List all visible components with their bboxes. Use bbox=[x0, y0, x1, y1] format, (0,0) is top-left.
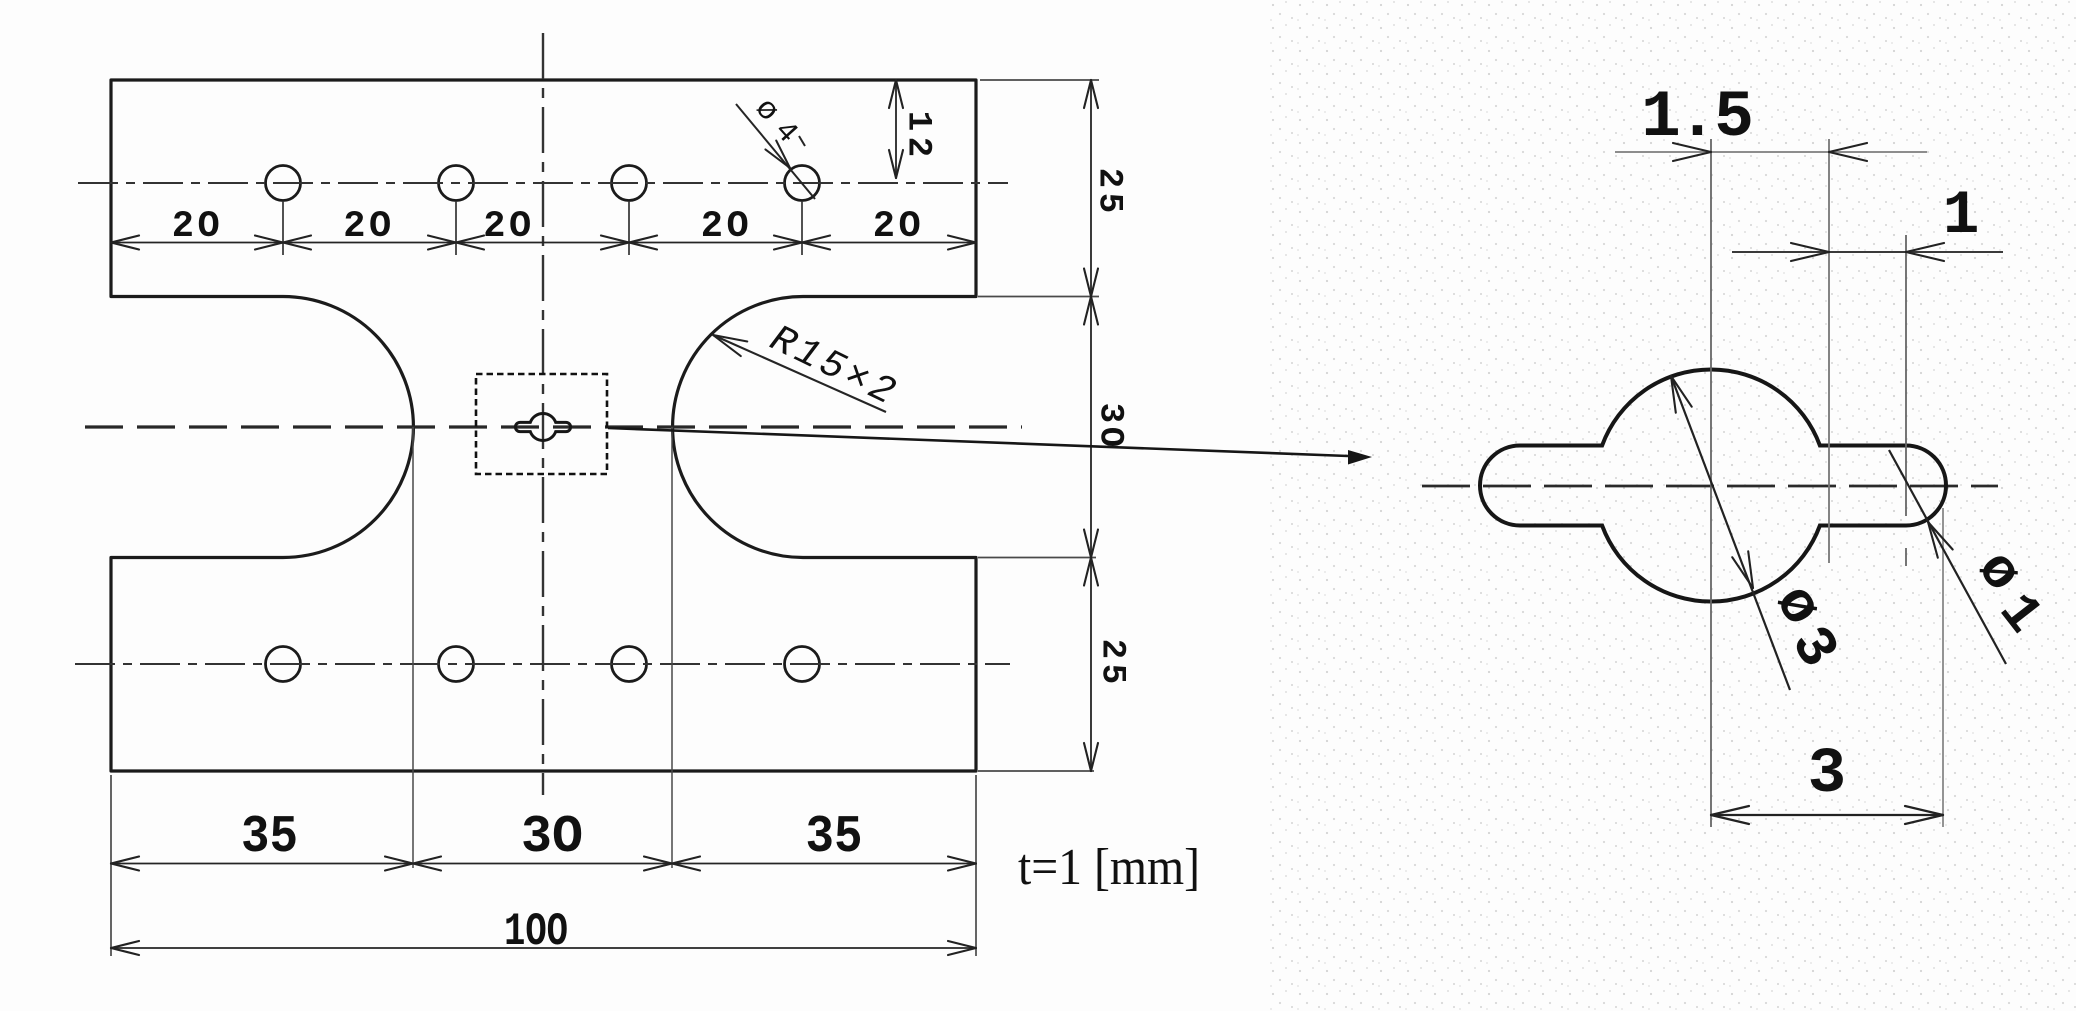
svg-text:2O: 2O bbox=[172, 206, 223, 248]
svg-text:1.5: 1.5 bbox=[1641, 80, 1751, 155]
svg-text:5: 5 bbox=[1089, 193, 1127, 213]
svg-text:2: 2 bbox=[1089, 168, 1127, 188]
svg-text:2: 2 bbox=[1092, 639, 1130, 659]
svg-text:2: 2 bbox=[898, 137, 936, 157]
svg-text:2O: 2O bbox=[483, 206, 534, 248]
svg-text:2O: 2O bbox=[343, 206, 394, 248]
svg-text:35: 35 bbox=[241, 807, 298, 867]
svg-text:2O: 2O bbox=[701, 206, 752, 248]
svg-text:2O: 2O bbox=[873, 206, 924, 248]
svg-text:35: 35 bbox=[806, 807, 863, 867]
svg-text:t=1 [mm]: t=1 [mm] bbox=[1018, 839, 1200, 896]
svg-text:1: 1 bbox=[1943, 182, 1980, 251]
svg-text:3: 3 bbox=[1090, 403, 1128, 423]
svg-text:1OO: 1OO bbox=[504, 906, 568, 958]
svg-text:O: O bbox=[1090, 427, 1128, 447]
svg-text:1: 1 bbox=[898, 111, 936, 131]
svg-text:3: 3 bbox=[1808, 739, 1846, 811]
svg-text:5: 5 bbox=[1092, 664, 1130, 684]
svg-text:3O: 3O bbox=[521, 807, 583, 867]
